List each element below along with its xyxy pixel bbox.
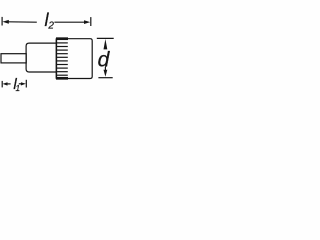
knurl rib 5 (56, 56, 67, 58)
background (0, 0, 114, 114)
knurled ring and drive end outline (56, 39, 92, 79)
dimension d down arrowhead (104, 70, 108, 77)
knurl rib 7 (56, 64, 67, 66)
knurl rib 1 (56, 42, 67, 44)
dimension l1 left arrowhead (3, 82, 8, 85)
knurl rib 4 (56, 53, 67, 55)
dimension l2 line left segment (8, 21, 37, 23)
dimension l2 line right segment (54, 21, 84, 23)
knurl rib 8 (56, 67, 67, 69)
dimension l2 left extension tick (1, 17, 3, 26)
knurl rib 6 (56, 60, 67, 62)
knurl rib 3 (56, 49, 67, 51)
knurl bottom band (56, 77, 68, 80)
dimension d up arrowhead (104, 39, 108, 49)
dimension l1 line right segment (19, 83, 22, 85)
svg-text:1: 1 (16, 84, 21, 93)
dimension d top extension tick (97, 37, 114, 39)
knurl rib 9 (56, 71, 67, 73)
dimension l2 right extension tick (90, 17, 92, 26)
socket body (26, 43, 56, 72)
dimension l2 right arrowhead (84, 20, 90, 24)
svg-text:2: 2 (47, 21, 54, 32)
svg-text:d: d (98, 48, 111, 71)
dimension l1 line left segment (7, 83, 11, 85)
knurl top band (56, 37, 68, 40)
dimension d bottom extension tick (98, 77, 112, 79)
knurl left step face (55, 39, 57, 79)
knurl rib 2 (56, 46, 67, 48)
knurl rib 10 (56, 74, 67, 76)
dimension l1 left extension tick (1, 81, 3, 88)
dimension d down arrow tail (104, 67, 106, 71)
dimension l2 left arrowhead (2, 20, 8, 24)
bit tip (rectangle) (1, 54, 26, 63)
dimension l1 right extension tick (25, 80, 27, 88)
dimension l1 right arrowhead (21, 82, 26, 85)
